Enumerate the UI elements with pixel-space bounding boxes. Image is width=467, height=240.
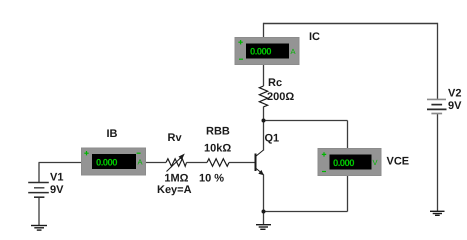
voltmeter VCE (318, 149, 381, 176)
wire V1 bottom to ground (38, 197, 40, 225)
svg-text:9V: 9V (448, 100, 462, 112)
svg-text:Key=A: Key=A (157, 184, 192, 196)
wire V1 to IB meter (39, 162, 82, 164)
svg-text:V: V (373, 158, 378, 167)
ground below emitter (256, 225, 271, 230)
potentiometer Rv (166, 154, 187, 172)
wire V2 bottom to ground (437, 114, 439, 212)
svg-text:Rc: Rc (268, 77, 282, 89)
wire V1 vertical top (38, 163, 40, 183)
ammeter IB (82, 148, 146, 175)
ground below V2 (430, 211, 445, 215)
svg-text:IC: IC (309, 31, 320, 43)
svg-text:Rv: Rv (168, 132, 183, 144)
ammeter IC (235, 38, 299, 65)
svg-text:IB: IB (107, 128, 118, 140)
wire IC meter to Rc (263, 64, 265, 86)
node emitter junction (262, 210, 266, 214)
wire VCE bottom vertical (347, 176, 349, 212)
svg-text:A: A (138, 158, 143, 167)
wire emitter node to VCE bottom horizontal (264, 211, 348, 213)
svg-text:0.000: 0.000 (96, 158, 118, 169)
svg-text:A: A (291, 47, 296, 56)
resistor RBB (207, 159, 229, 167)
wire collector vertical (263, 121, 265, 151)
battery V2 (427, 99, 447, 113)
resistor Rc (259, 86, 267, 107)
wire IC meter top (263, 23, 265, 38)
svg-text:1MΩ: 1MΩ (164, 173, 188, 185)
battery V1 (28, 183, 49, 198)
ground below V1 (31, 226, 47, 231)
svg-text:VCE: VCE (387, 156, 410, 168)
wire VCE top vertical (347, 121, 349, 150)
wire collector node to VCE top horizontal (264, 120, 348, 122)
svg-text:200Ω: 200Ω (267, 91, 294, 103)
svg-text:RBB: RBB (206, 126, 230, 138)
wire Rv to RBB (187, 162, 208, 164)
transistor Q1 (256, 150, 264, 175)
svg-text:10kΩ: 10kΩ (204, 143, 231, 155)
wire IB meter to Rv (146, 162, 167, 164)
svg-text:V1: V1 (50, 172, 63, 184)
svg-text:0.000: 0.000 (250, 47, 272, 58)
wire emitter node to ground (263, 212, 265, 226)
svg-text:Q1: Q1 (265, 133, 280, 145)
node collector junction (262, 119, 266, 123)
wire emitter vertical (263, 175, 265, 212)
svg-text:10 %: 10 % (199, 173, 224, 185)
svg-text:9V: 9V (50, 184, 64, 196)
wire top horizontal (264, 23, 438, 25)
wire RBB to base (229, 162, 256, 164)
wire V2 top vertical (437, 23, 439, 100)
svg-text:0.000: 0.000 (333, 158, 355, 169)
svg-text:V2: V2 (448, 88, 461, 100)
wire Rc to collector node (263, 107, 265, 121)
